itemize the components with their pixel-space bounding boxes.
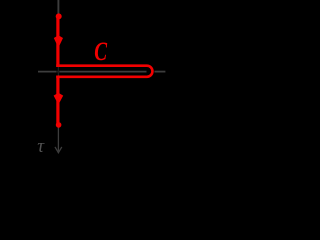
vertical axis lower thin part [57, 15, 59, 151]
node: bottom endpoint dot [56, 122, 62, 128]
vertical axis (imaginary / tau axis) [57, 0, 59, 15]
vertical axis arrowhead (down) [55, 147, 62, 153]
arrowhead on contour (lower, pointing down) [54, 93, 64, 105]
node: top endpoint dot [56, 13, 62, 19]
wire: red vertical contour upper segment [56, 16, 59, 67]
wire: red branch-cut slot around positive real axis with rounded right cap [56, 66, 152, 77]
horizontal axis right segment [154, 71, 165, 73]
wire: red vertical contour lower segment [56, 76, 59, 126]
horizontal axis (real axis) left segment [38, 71, 147, 73]
svg-text:C: C [94, 37, 107, 66]
arrowhead on contour (upper, pointing down) [54, 35, 63, 48]
node: darkened axis crossing inside slot [56, 67, 59, 75]
svg-text:τ: τ [37, 136, 45, 157]
